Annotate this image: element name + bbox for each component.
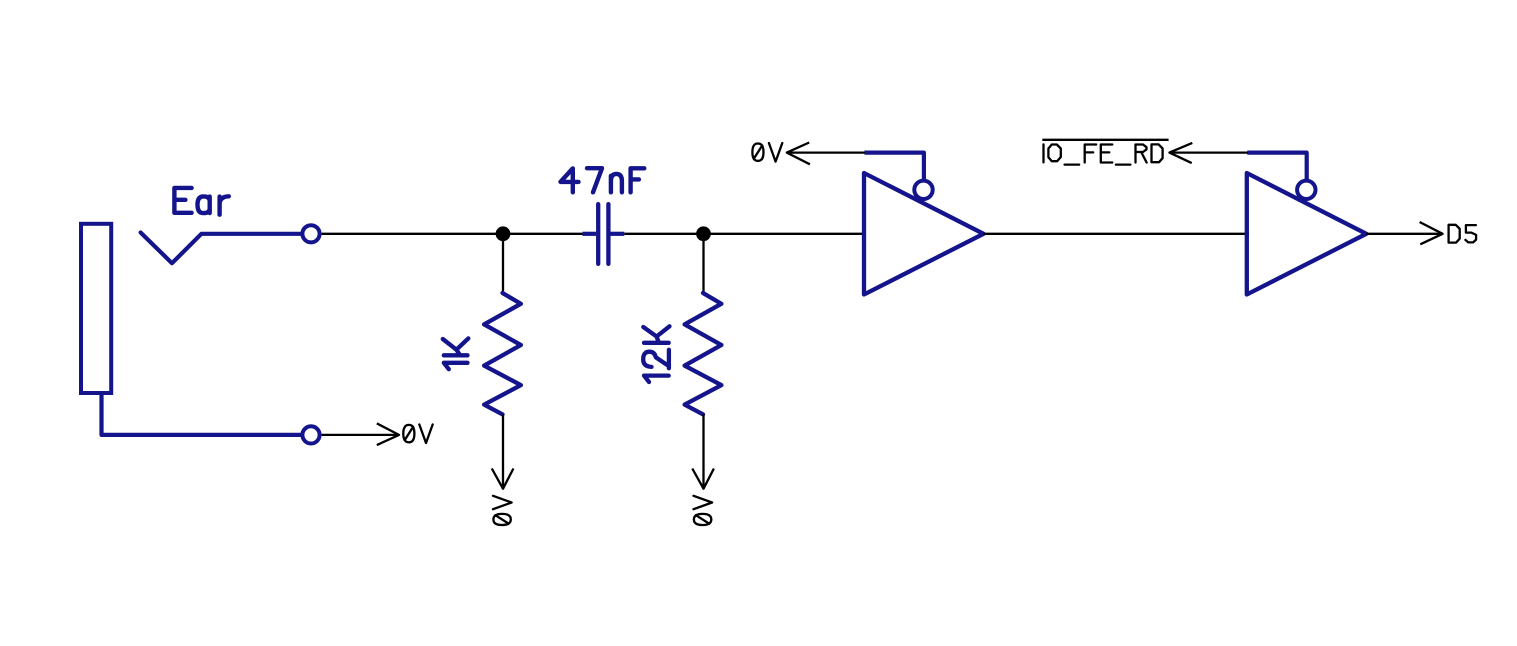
arrow to D5 bbox=[1420, 222, 1443, 244]
buffer U2 enable bubble bbox=[1297, 181, 1315, 199]
label 47nF bbox=[561, 168, 645, 192]
wire U1 output to U2 bbox=[984, 233, 1250, 235]
enable wire U2 bbox=[1247, 153, 1306, 179]
capacitor C1 left plate bbox=[596, 204, 600, 264]
capacitor C1 right lead bbox=[611, 232, 625, 236]
label Ear bbox=[174, 188, 228, 215]
wire node B to R2 bbox=[702, 234, 704, 293]
arrow down 0V (R1) bbox=[492, 469, 514, 489]
label 1K bbox=[443, 338, 469, 369]
label 12K bbox=[643, 326, 669, 382]
connector J1 jack body bbox=[81, 224, 111, 393]
wire U2 output to D5 bbox=[1366, 233, 1442, 235]
net label 0V rotated (R2) bbox=[694, 496, 713, 525]
arrow to 0V net bbox=[377, 423, 399, 445]
enable wire U1 bbox=[865, 153, 924, 179]
arrow down 0V (R2) bbox=[692, 469, 714, 489]
arrow to IO_FE_RD (enable U2) bbox=[1169, 143, 1192, 163]
switch contact of jack bbox=[141, 233, 301, 264]
resistor R1 zigzag bbox=[484, 293, 521, 414]
wire top rail left bbox=[322, 233, 583, 235]
wire cap to node B bbox=[624, 233, 862, 235]
wire jack sleeve to 0V terminal bbox=[102, 393, 301, 435]
net label 0V (enable U1) bbox=[752, 143, 782, 162]
terminal pin circle bottom bbox=[302, 426, 319, 443]
node junction B bbox=[696, 226, 711, 241]
terminal pin circle top bbox=[302, 225, 319, 242]
wire R1 to ground arrow bbox=[502, 414, 504, 488]
net label D5 bbox=[1449, 225, 1477, 243]
capacitor C1 left lead bbox=[583, 232, 597, 236]
net label IO_FE_RD with overline bbox=[1042, 140, 1168, 165]
buffer U1 triangle bbox=[864, 173, 984, 295]
wire jack sleeve to 0V arrow bbox=[322, 434, 399, 436]
wire node A to R1 bbox=[502, 234, 504, 293]
wire enable U2 to IO_FE_RD bbox=[1169, 151, 1247, 153]
resistor R2 zigzag bbox=[685, 293, 722, 414]
net label 0V rotated (R1) bbox=[493, 496, 512, 525]
net label 0V (jack) bbox=[403, 424, 432, 443]
node junction A bbox=[496, 226, 511, 241]
wire R2 to ground arrow bbox=[702, 414, 704, 488]
wire enable U1 to 0V bbox=[787, 151, 865, 153]
arrow to 0V (enable U1) bbox=[787, 143, 810, 165]
capacitor C1 right plate bbox=[606, 204, 610, 264]
buffer U1 enable bubble bbox=[914, 181, 932, 199]
buffer U2 triangle bbox=[1247, 173, 1367, 295]
